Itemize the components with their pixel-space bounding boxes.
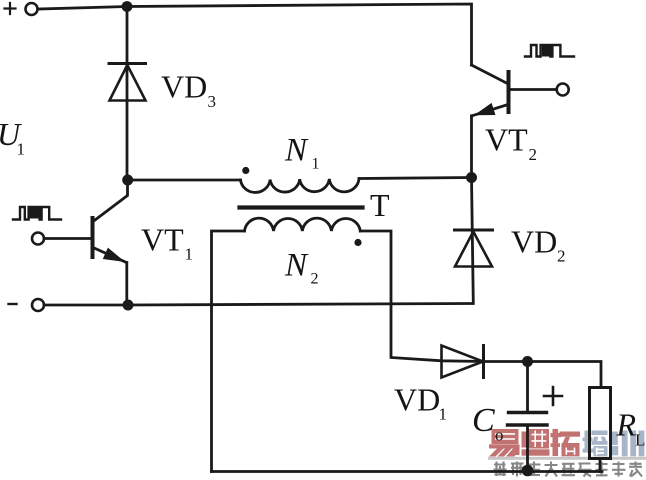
wire N1 right rail <box>359 178 472 179</box>
base bar <box>507 72 511 112</box>
collector diagonal <box>472 65 508 84</box>
wire bottom rail <box>212 470 603 473</box>
minus sign left <box>9 303 17 305</box>
transformer T winding N1 <box>241 179 360 193</box>
node bottom junction <box>522 465 534 477</box>
svg-text:VT: VT <box>141 222 184 258</box>
wire VD3 branch upper <box>126 7 129 181</box>
wire C0 upper <box>526 362 529 413</box>
white slits inside red chars <box>495 431 575 455</box>
base wire <box>44 237 91 240</box>
svg-text:N: N <box>284 133 309 169</box>
transistor VT2 <box>472 65 557 178</box>
node C0 top junction <box>522 356 533 367</box>
svg-text:3: 3 <box>208 92 217 111</box>
svg-text:1: 1 <box>185 245 194 264</box>
capacitor C0 <box>508 413 548 426</box>
transistor VT1 <box>32 180 128 305</box>
wire N2 right leg <box>360 231 483 362</box>
base wire <box>509 88 557 91</box>
svg-text:VD: VD <box>394 382 440 418</box>
char 易 <box>489 429 520 457</box>
svg-text:N: N <box>284 248 309 284</box>
emitter diagonal <box>472 105 508 116</box>
node top junction <box>122 1 133 12</box>
char 迪 <box>522 429 550 456</box>
wire top rail <box>38 4 472 65</box>
svg-text:T: T <box>370 187 390 223</box>
svg-text:2: 2 <box>557 247 566 266</box>
svg-text:o: o <box>495 426 504 445</box>
node N1 polarity dot <box>242 167 249 174</box>
terminal VT2 base (open circle) <box>557 84 569 96</box>
base terminal circle <box>32 233 44 245</box>
watermark logo text 易迪拓培训 (red+blue) <box>488 429 646 477</box>
node N2 polarity dot <box>354 239 361 246</box>
base bar <box>91 218 95 257</box>
plus sign top-left <box>5 3 16 14</box>
node left mid junction <box>122 175 133 186</box>
emitter vertical <box>470 116 473 178</box>
wire RL lower <box>599 459 602 472</box>
emitter arrow <box>476 104 495 115</box>
svg-text:VT: VT <box>485 122 528 158</box>
transformer winding N2 <box>245 218 361 231</box>
wire VD2 upper <box>472 178 474 304</box>
collector diagonal <box>93 180 128 222</box>
emitter arrow <box>104 248 124 261</box>
diode VD1 <box>442 346 484 378</box>
svg-text:2: 2 <box>529 145 538 164</box>
diode VD3 <box>109 64 146 101</box>
node bottom-left junction <box>123 300 134 311</box>
plus sign at C0 <box>544 387 562 405</box>
wire N1 left rail <box>128 179 241 182</box>
terminal - (open circle) <box>32 299 44 311</box>
wire VD1 to RL <box>484 362 602 388</box>
wire minus rail <box>44 304 472 306</box>
pulse symbol VT1 <box>13 207 61 220</box>
svg-text:L: L <box>635 431 645 450</box>
char 拓 <box>551 429 581 456</box>
watermark underline band <box>488 457 646 460</box>
diode VD2 <box>455 230 493 267</box>
char 培 <box>583 431 608 457</box>
emitter vertical <box>125 263 128 306</box>
watermark slogan 射频和天线设计专家 (gray) <box>494 462 643 477</box>
emitter diagonal <box>93 248 127 263</box>
svg-text:1: 1 <box>17 140 26 159</box>
terminal + (open circle) <box>26 3 38 15</box>
node right mid junction <box>466 172 477 183</box>
wire C0 lower <box>526 425 529 472</box>
transformer core <box>240 205 363 209</box>
wire N2 left leg <box>212 231 245 472</box>
svg-text:1: 1 <box>312 156 320 173</box>
svg-text:C: C <box>472 402 495 439</box>
svg-text:VD: VD <box>511 224 557 260</box>
pulse symbol VT2 <box>525 45 574 57</box>
resistor RL <box>590 388 611 459</box>
svg-text:VD: VD <box>161 69 207 105</box>
svg-text:2: 2 <box>311 271 319 288</box>
svg-text:1: 1 <box>439 405 448 424</box>
char 训 <box>612 431 645 457</box>
svg-text:R: R <box>616 407 637 443</box>
